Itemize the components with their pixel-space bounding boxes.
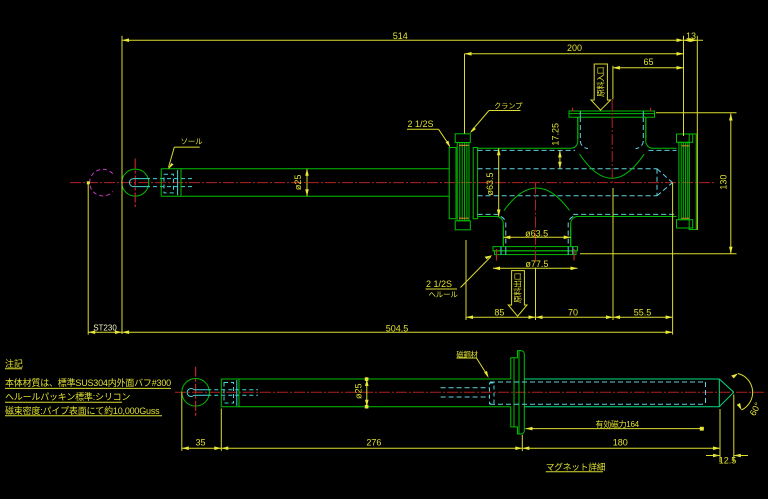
right flange gasket marks xyxy=(682,146,690,219)
svg-text:2 1/2S: 2 1/2S xyxy=(426,279,452,289)
top branch flange xyxy=(569,111,655,117)
label seal xyxy=(168,137,203,170)
cross body outline xyxy=(478,117,677,247)
svg-text:ø25: ø25 xyxy=(293,175,303,191)
magnet centerline xyxy=(175,391,766,393)
outlet arrow symbol xyxy=(508,271,527,317)
phi25 bore through body (hidden) xyxy=(478,169,673,196)
sheath bore hidden xyxy=(490,382,706,404)
svg-text:70: 70 xyxy=(568,308,578,318)
svg-text:2 1/2S: 2 1/2S xyxy=(408,119,434,129)
svg-text:13: 13 xyxy=(686,31,696,41)
magnet sheath right section xyxy=(524,379,734,407)
svg-text:17.25: 17.25 xyxy=(550,123,560,146)
svg-text:本体材質は、標準SUS304内外面バフ#300: 本体材質は、標準SUS304内外面バフ#300 xyxy=(5,377,171,388)
phantom circle (eyebolt swing, magenta) xyxy=(90,169,113,196)
dim 514 xyxy=(122,31,684,334)
dim row 35 276 180 xyxy=(182,392,734,462)
svg-text:85: 85 xyxy=(494,308,504,318)
dim effective magnet 164 xyxy=(526,419,704,431)
bottom branch centerline red xyxy=(535,183,537,263)
svg-text:磁鋼材: 磁鋼材 xyxy=(456,350,477,359)
eyebolt slot (hidden cyan) xyxy=(130,179,194,187)
eyebolt ring xyxy=(122,159,149,208)
svg-text:ソール: ソール xyxy=(181,137,204,146)
svg-text:12.5: 12.5 xyxy=(719,455,737,465)
svg-text:130: 130 xyxy=(719,175,729,190)
centerline main horizontal xyxy=(70,182,714,184)
magnet end cap hidden xyxy=(224,380,237,406)
body bore hidden lines xyxy=(478,150,677,214)
svg-text:ヘルール: ヘルール xyxy=(429,290,459,299)
seal plug hidden detail xyxy=(164,170,178,195)
cone angle arc 60deg xyxy=(731,374,763,418)
dim phi63.5 bottom branch xyxy=(503,229,570,240)
magnet rod hidden xyxy=(441,383,494,404)
clamp gasket marks xyxy=(459,145,469,218)
title magnet detail xyxy=(546,461,606,472)
svg-text:原料出口: 原料出口 xyxy=(513,273,523,303)
svg-text:504.5: 504.5 xyxy=(386,323,409,333)
right end clamp flange xyxy=(677,134,697,230)
svg-text:有効磁力164: 有効磁力164 xyxy=(596,419,640,429)
svg-text:磁束密度:パイプ表面にて約10,000Guss: 磁束密度:パイプ表面にて約10,000Guss xyxy=(5,405,160,416)
magnet eyebolt ring xyxy=(182,367,210,418)
body-side ferrule xyxy=(473,148,477,219)
dim phi77.5 xyxy=(493,259,578,270)
saddle arc top branch xyxy=(580,154,645,178)
svg-text:180: 180 xyxy=(613,438,628,448)
svg-text:クランプ: クランプ xyxy=(494,102,523,111)
svg-text:514: 514 xyxy=(393,31,408,41)
dim phi25 magnet xyxy=(353,377,368,408)
label magnet steel xyxy=(456,350,488,378)
top flange gasket marks red xyxy=(573,108,651,112)
svg-text:ø77.5: ø77.5 xyxy=(525,259,548,269)
bottom branch walls xyxy=(501,217,573,247)
top branch walls xyxy=(578,117,646,149)
svg-text:マグネット詳細: マグネット詳細 xyxy=(546,461,606,472)
label 2 1/2S herule xyxy=(426,255,493,299)
dim phi25 pipe xyxy=(293,169,309,197)
svg-text:ø25: ø25 xyxy=(353,383,363,399)
svg-text:注記: 注記 xyxy=(5,358,23,369)
notes block xyxy=(5,358,171,416)
dim 13 xyxy=(684,31,704,230)
top branch centerline red xyxy=(611,100,613,183)
svg-text:原料入口: 原料入口 xyxy=(595,67,605,97)
svg-text:ø63.5: ø63.5 xyxy=(525,229,548,239)
dim 12.5 xyxy=(706,454,748,466)
bottom flange gasket marks red xyxy=(497,249,575,261)
dim 504.5 and ST230 xyxy=(87,181,673,334)
magnet pipe outline xyxy=(221,379,511,407)
svg-text:ST230: ST230 xyxy=(93,324,117,333)
dim 130 right xyxy=(580,113,737,254)
svg-text:ヘルールパッキン標準:シリコン: ヘルールパッキン標準:シリコン xyxy=(5,391,130,402)
label clamp xyxy=(470,102,523,134)
pipe phi25 outline xyxy=(161,169,449,197)
saddle arc bottom branch xyxy=(504,188,570,211)
svg-text:276: 276 xyxy=(366,438,381,448)
dim phi63.5 vertical xyxy=(485,148,501,216)
svg-text:ø63.5: ø63.5 xyxy=(485,172,495,195)
svg-text:65: 65 xyxy=(643,57,653,67)
dim row 85 70 55.5 xyxy=(466,188,673,320)
label 2 1/2S left xyxy=(407,119,450,147)
inlet arrow symbol xyxy=(591,64,611,110)
dim 200 xyxy=(465,43,684,134)
sanitary ferrule flange xyxy=(511,351,525,434)
bottom branch flange xyxy=(493,247,578,255)
magnet eyebolt slot xyxy=(187,389,258,397)
svg-text:55.5: 55.5 xyxy=(634,308,652,318)
clamp joint left xyxy=(455,134,470,230)
pipe-end weld ferrule xyxy=(449,148,456,219)
dim 65 xyxy=(613,57,684,99)
dim 17.25 xyxy=(550,123,561,169)
svg-text:35: 35 xyxy=(195,438,205,448)
svg-text:200: 200 xyxy=(567,43,582,53)
